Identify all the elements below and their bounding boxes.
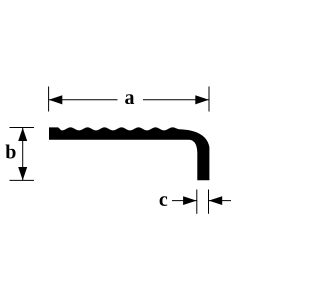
dimension b: top extension tick [10, 127, 35, 129]
dimension c: left extension tick [196, 190, 198, 214]
dimension b: down arrowhead [18, 167, 27, 180]
dimension b: up arrowhead [18, 128, 27, 141]
dimension b: bottom extension tick [10, 179, 35, 181]
dimension c: right arrowhead (points left) [209, 196, 223, 205]
L-profile body (stair nosing angle, ribbed top) [49, 127, 209, 180]
dimension c: left arrowhead (points right) [183, 196, 197, 205]
dimension c: line left segment [172, 200, 197, 202]
dimension c: right extension tick [208, 190, 210, 214]
dimension a: left arrowhead [49, 95, 63, 104]
dimension a: line right segment [143, 99, 209, 101]
dimension c: line right segment [209, 200, 232, 202]
dimension a: right extension tick [208, 87, 210, 112]
svg-text:c: c [159, 189, 168, 211]
dimension a: right arrowhead [195, 95, 209, 104]
svg-text:a: a [125, 87, 135, 109]
svg-text:b: b [5, 142, 16, 164]
dimension b: vertical line [22, 128, 24, 180]
dimension a: line left segment [49, 99, 118, 101]
dimension a: left extension tick [48, 87, 50, 112]
